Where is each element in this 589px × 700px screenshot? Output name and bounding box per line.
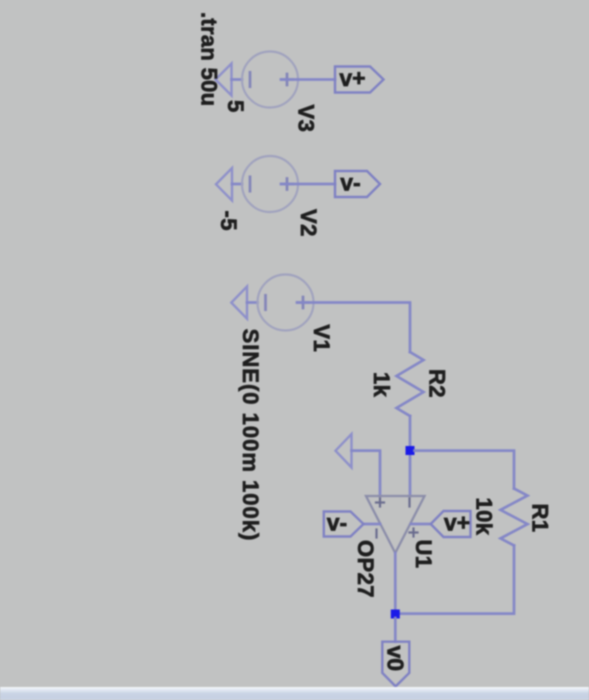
svg-text:-5: -5 [216,211,241,231]
svg-text:V3: V3 [294,105,319,133]
svg-text:v-: v- [327,510,347,536]
svg-text:10k: 10k [472,498,497,536]
svg-text:R1: R1 [528,504,553,533]
svg-text:v-: v- [340,170,360,196]
svg-text:v+: v+ [339,65,365,91]
svg-text:V1: V1 [309,324,334,352]
svg-text:V2: V2 [296,209,321,237]
svg-text:U1: U1 [411,540,436,569]
svg-text:R2: R2 [425,369,450,398]
svg-text:OP27: OP27 [353,540,378,598]
svg-text:1k: 1k [369,372,394,398]
svg-text:v+: v+ [444,510,470,536]
svg-text:v0: v0 [383,646,409,672]
svg-text:5: 5 [223,100,248,113]
svg-text:SINE(0 100m 100k): SINE(0 100m 100k) [238,329,263,542]
svg-text:.tran 50u: .tran 50u [197,12,222,106]
